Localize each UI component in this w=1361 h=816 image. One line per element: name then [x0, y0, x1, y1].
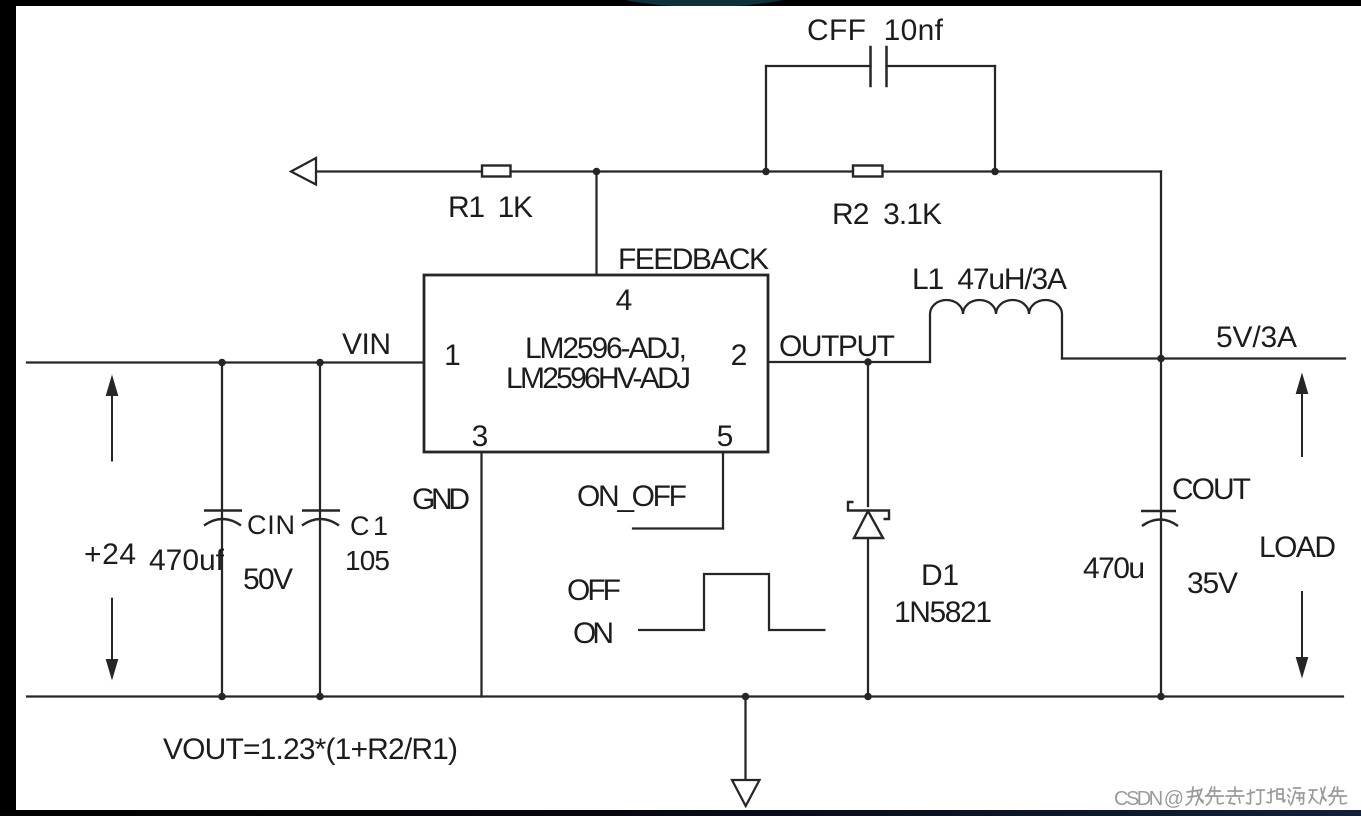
top black bar: [0, 0, 1361, 6]
svg-text:35V: 35V: [1187, 567, 1238, 600]
char you: [1288, 788, 1305, 805]
svg-text:LM2596-ADJ,: LM2596-ADJ,: [525, 332, 687, 365]
svg-text:470u: 470u: [1083, 552, 1145, 585]
char wo: [1186, 787, 1203, 805]
char xi: [1309, 787, 1326, 804]
svg-text:VIN: VIN: [342, 328, 391, 361]
svg-text:5: 5: [717, 420, 734, 453]
capacitor C1 symbol: [302, 511, 340, 526]
node D1 top: [864, 358, 872, 366]
wire CFF top right: [887, 65, 996, 67]
arrow LOAD up: [1297, 376, 1307, 457]
svg-text:1N5821: 1N5821: [894, 596, 992, 629]
svg-text:CIN: CIN: [247, 510, 295, 540]
wire feedback horizontal: [315, 170, 1161, 172]
node COUT bottom: [1157, 693, 1165, 701]
node CIN bottom: [218, 693, 226, 701]
node CIN top: [218, 359, 226, 367]
arrow +24 down: [107, 598, 117, 677]
wire D1 anode top: [867, 362, 869, 506]
node COUT top: [1157, 355, 1165, 363]
node C1 top: [316, 359, 324, 367]
svg-text:105: 105: [345, 545, 390, 576]
svg-text:+24: +24: [84, 538, 136, 571]
svg-text:3: 3: [472, 420, 489, 453]
node CFF right: [991, 168, 999, 176]
node D1 bottom: [864, 693, 872, 701]
top bar blue blob: [601, 0, 807, 7]
capacitor CIN symbol: [204, 511, 242, 526]
wire output right line: [1062, 357, 1345, 359]
resistor R1: [482, 166, 511, 177]
char xian: [1206, 787, 1224, 805]
wire C1 vertical: [319, 363, 321, 697]
svg-text:ON_OFF: ON_OFF: [577, 480, 687, 513]
char xian2: [1329, 787, 1347, 805]
svg-text:GND: GND: [412, 483, 470, 516]
svg-text:COUT: COUT: [1172, 473, 1251, 506]
svg-text:OFF: OFF: [567, 574, 621, 607]
node C1 bottom: [316, 693, 324, 701]
capacitor COUT symbol: [1141, 511, 1178, 526]
inductor L1: [930, 300, 1062, 362]
watermark CSDN: [1114, 788, 1184, 810]
node CFF left: [762, 168, 770, 176]
left black bar: [0, 0, 16, 816]
char da: [1247, 790, 1265, 804]
wire ON_OFF pin5 vertical: [722, 452, 724, 529]
arrow +24 up: [107, 378, 117, 462]
char ba: [1267, 789, 1285, 803]
svg-text:VOUT=1.23*(1+R2/R1): VOUT=1.23*(1+R2/R1): [163, 733, 458, 766]
svg-text:4: 4: [616, 284, 633, 317]
svg-text:5V/3A: 5V/3A: [1216, 321, 1297, 354]
watermark CJK strokes: [1186, 787, 1347, 805]
ground symbol: [732, 780, 760, 806]
wire ground stem: [744, 697, 746, 781]
wire GND pin3 vertical: [480, 452, 482, 697]
arrow LOAD down: [1297, 591, 1307, 675]
svg-text:ON: ON: [573, 617, 614, 650]
svg-text:470uf: 470uf: [149, 544, 225, 577]
node feedback-R1: [593, 168, 601, 176]
wire D1 cathode bottom: [867, 538, 869, 697]
wire VIN input line: [27, 361, 424, 363]
svg-text:OUTPUT: OUTPUT: [779, 330, 895, 363]
wire right vertical net: [1160, 172, 1162, 697]
wire CFF right vertical: [994, 66, 996, 172]
diode D1 schottky: [848, 502, 889, 538]
svg-text:CFF 10nf: CFF 10nf: [807, 14, 944, 47]
wire CIN vertical: [221, 363, 223, 697]
char qu: [1226, 787, 1244, 804]
svg-text:50V: 50V: [243, 563, 293, 596]
svg-text:LM2596HV-ADJ: LM2596HV-ADJ: [506, 362, 691, 395]
svg-text:R2 3.1K: R2 3.1K: [832, 198, 942, 231]
svg-text:R1 1K: R1 1K: [448, 191, 533, 224]
svg-text:L1 47uH/3A: L1 47uH/3A: [912, 263, 1067, 296]
wire ON_OFF horizontal: [633, 527, 723, 529]
wire CFF top left: [766, 65, 871, 67]
svg-text:1: 1: [444, 339, 461, 372]
wire feedback pin4 vertical: [595, 172, 597, 276]
svg-text:D1: D1: [921, 559, 959, 592]
arrow feedback left: [291, 158, 316, 185]
wire output line pin2: [768, 361, 930, 363]
wire CFF left vertical: [765, 66, 767, 172]
svg-text:2: 2: [731, 339, 748, 372]
wire bottom rail: [27, 695, 1343, 697]
svg-text:CSDN @: CSDN @: [1114, 788, 1184, 810]
capacitor CFF plates: [871, 47, 887, 86]
resistor R2: [853, 166, 883, 177]
svg-text:FEEDBACK: FEEDBACK: [618, 243, 769, 276]
op-amp U1 IC box LM2596: [424, 275, 768, 452]
node ground: [742, 693, 750, 701]
bottom black bar: [0, 810, 1361, 816]
waveform ON OFF pulse: [638, 574, 826, 630]
svg-text:LOAD: LOAD: [1259, 531, 1336, 564]
svg-text:C1: C1: [350, 511, 388, 541]
